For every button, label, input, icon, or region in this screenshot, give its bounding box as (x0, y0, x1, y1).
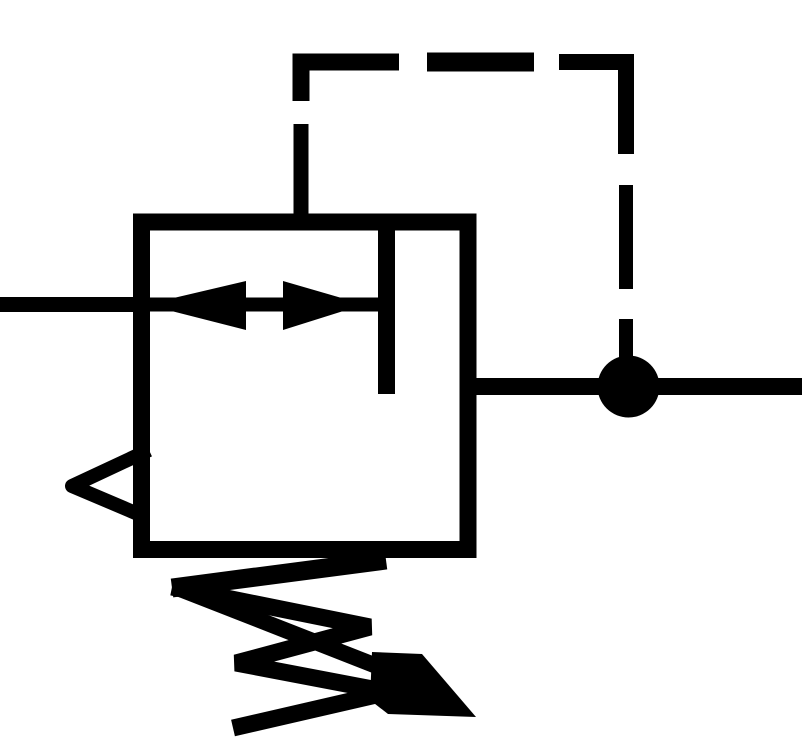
flow arrow shaft (149, 298, 378, 312)
spring first segment from box (172, 560, 386, 588)
junction node on output (598, 356, 660, 418)
flow arrowhead left (146, 281, 246, 330)
spring zigzag (172, 587, 425, 699)
internal partition bar (378, 222, 395, 394)
pilot line dash right vertical 2 (619, 319, 633, 360)
valve body box (142, 222, 469, 550)
pilot line corner dash top left (301, 62, 399, 101)
adjustment arrow shaft (175, 587, 443, 692)
pilot line dash right vertical 1 (619, 185, 633, 289)
wire input line left (0, 297, 149, 312)
pilot line corner dash top right (559, 62, 626, 154)
pilot line dash top middle (427, 53, 534, 72)
vent triangle left (72, 450, 149, 517)
wire output line right (461, 378, 802, 395)
spring bottom segment (233, 693, 385, 728)
flow arrowhead right (283, 281, 364, 330)
adjustment arrowhead (370, 652, 476, 717)
pilot line dash vertical to box (294, 124, 309, 222)
